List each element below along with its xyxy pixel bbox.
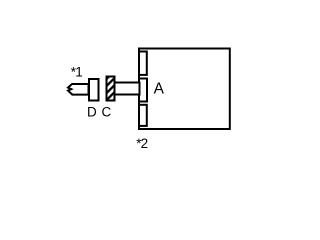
- svg-text:A: A: [154, 80, 165, 97]
- bolt shank *1 (notched arrow shape): [68, 84, 89, 95]
- slot bottom (tab on housing left edge): [139, 105, 147, 126]
- slot top (tab on housing left edge): [139, 52, 147, 75]
- shaft bar between bushing C and housing: [115, 83, 140, 95]
- housing A (*2 component body): [139, 49, 230, 130]
- svg-text:C: C: [102, 105, 112, 120]
- svg-text:D: D: [87, 105, 97, 120]
- washer D: [89, 79, 99, 101]
- svg-text:*1: *1: [71, 64, 82, 79]
- svg-text:*2: *2: [136, 136, 147, 151]
- bushing C (hatched): [107, 77, 115, 101]
- slot middle (tab on housing left edge): [139, 79, 147, 102]
